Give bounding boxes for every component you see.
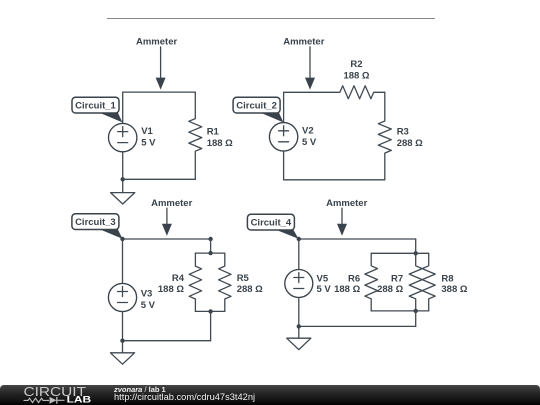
wire left rail top circuit 4 bbox=[298, 239, 300, 270]
wire bottom rail circuit 1 bbox=[123, 178, 196, 180]
junction node parallel bottom circuit 4 bbox=[414, 309, 418, 313]
junction node parallel top circuit 3 bbox=[208, 251, 212, 255]
wire left rail top circuit 1 bbox=[122, 92, 124, 123]
footer black bar bbox=[0, 385, 540, 405]
voltage source V5 bbox=[285, 270, 313, 298]
ground (circuit 1) bbox=[111, 179, 135, 204]
resistor R3 bbox=[378, 92, 391, 180]
wire parallel bottom bar circuit 4 bbox=[371, 310, 429, 312]
junction node parallel bottom circuit 3 bbox=[208, 309, 212, 313]
svg-text:R3: R3 bbox=[397, 127, 409, 138]
svg-text:V5: V5 bbox=[317, 273, 329, 284]
svg-text:5 V: 5 V bbox=[302, 137, 317, 148]
voltage source V2 bbox=[269, 123, 297, 151]
resistor R4 bbox=[189, 253, 201, 311]
svg-text:LAB: LAB bbox=[67, 395, 92, 405]
svg-text:388 Ω: 388 Ω bbox=[441, 284, 467, 295]
wire parallel bottom bar circuit 3 bbox=[195, 310, 224, 312]
voltage source V3 bbox=[108, 283, 136, 311]
ammeter probe arrow (circuit 4) bbox=[337, 208, 347, 236]
wire left rail top circuit 2 bbox=[283, 92, 285, 122]
junction node ground tee circuit 3 bbox=[120, 339, 124, 343]
callout label Circuit_2 bbox=[233, 97, 283, 122]
ammeter probe arrow (circuit 2) bbox=[305, 47, 315, 90]
svg-text:R4: R4 bbox=[172, 273, 185, 284]
callout label Circuit_3 bbox=[72, 214, 123, 239]
svg-text:R5: R5 bbox=[237, 273, 250, 284]
junction node callout corner circuit 4 bbox=[297, 237, 301, 241]
svg-text:Ammeter: Ammeter bbox=[136, 36, 177, 47]
resistor R5 bbox=[219, 253, 231, 311]
wire left rail bottom circuit 1 bbox=[122, 152, 124, 180]
wire top rail circuit 4 bbox=[299, 238, 416, 240]
junction node callout corner circuit 3 bbox=[120, 237, 124, 241]
top separator line bbox=[107, 18, 435, 20]
svg-text:V1: V1 bbox=[141, 126, 153, 137]
junction node top tee circuit 3 bbox=[208, 237, 212, 241]
wire parallel top bar circuit 3 bbox=[195, 252, 224, 254]
junction node parallel top circuit 4 bbox=[414, 251, 418, 255]
svg-text:Circuit_1: Circuit_1 bbox=[75, 101, 116, 112]
svg-text:V2: V2 bbox=[302, 125, 314, 136]
svg-text:R1: R1 bbox=[207, 127, 220, 138]
svg-text:188 Ω: 188 Ω bbox=[158, 284, 184, 295]
wire bottom rail circuit 2 bbox=[284, 179, 385, 181]
wire stub bottom parallel circuit 4 bbox=[415, 311, 417, 327]
footer texts bbox=[114, 386, 166, 394]
svg-text:Circuit_4: Circuit_4 bbox=[251, 218, 292, 229]
svg-text:V3: V3 bbox=[141, 288, 153, 299]
wire left rail bottom circuit 4 bbox=[298, 298, 300, 327]
svg-text:Circuit_3: Circuit_3 bbox=[75, 217, 116, 228]
CircuitLab logo resistor squiggle bbox=[24, 398, 50, 402]
ammeter probe arrow (circuit 3) bbox=[162, 208, 172, 236]
wire left rail bottom circuit 2 bbox=[283, 151, 285, 180]
resistor R7 bbox=[409, 253, 422, 311]
ammeter probe arrow (circuit 1) bbox=[156, 47, 166, 90]
svg-text:R6: R6 bbox=[348, 273, 360, 284]
svg-text:188 Ω: 188 Ω bbox=[334, 284, 360, 295]
wire parallel top bar circuit 4 bbox=[371, 252, 429, 254]
wire left rail bottom circuit 3 bbox=[122, 312, 124, 341]
svg-text:R7: R7 bbox=[391, 273, 403, 284]
ground (circuit 3) bbox=[110, 341, 134, 365]
resistor R1 bbox=[189, 92, 202, 179]
svg-text:Ammeter: Ammeter bbox=[151, 198, 192, 209]
svg-text:288 Ω: 288 Ω bbox=[377, 284, 403, 295]
junction node circuit 1 ground tee bbox=[121, 177, 125, 181]
wire bottom rail circuit 3 bbox=[123, 340, 211, 342]
callout label Circuit_4 bbox=[247, 214, 298, 239]
CircuitLab logo diode symbol bbox=[50, 397, 57, 404]
svg-text:Ammeter: Ammeter bbox=[283, 36, 324, 47]
wire left rail top circuit 3 bbox=[122, 239, 124, 283]
svg-text:5 V: 5 V bbox=[141, 300, 156, 311]
svg-text:R2: R2 bbox=[350, 59, 362, 70]
svg-text:R8: R8 bbox=[441, 273, 453, 284]
wire bottom rail circuit 4 bbox=[299, 325, 416, 327]
svg-text:288 Ω: 288 Ω bbox=[397, 138, 423, 149]
voltage source V1 bbox=[109, 123, 137, 151]
resistor R6 bbox=[365, 253, 378, 311]
svg-text:188 Ω: 188 Ω bbox=[343, 71, 369, 82]
svg-text:5 V: 5 V bbox=[317, 284, 332, 295]
svg-text:Circuit_2: Circuit_2 bbox=[236, 101, 277, 112]
ground (circuit 4) bbox=[287, 326, 311, 349]
resistor R8 bbox=[422, 253, 435, 311]
wire top rail circuit 3 bbox=[123, 238, 211, 240]
svg-text:288 Ω: 288 Ω bbox=[237, 284, 263, 295]
svg-text:188 Ω: 188 Ω bbox=[207, 138, 233, 149]
svg-text:Ammeter: Ammeter bbox=[326, 198, 367, 209]
wire stub top parallel circuit 3 bbox=[210, 239, 212, 253]
callout label Circuit_1 bbox=[72, 97, 122, 122]
svg-text:5 V: 5 V bbox=[141, 138, 156, 149]
junction node ground tee circuit 4 bbox=[297, 324, 301, 328]
wire stub bottom parallel circuit 3 bbox=[210, 311, 212, 340]
resistor R2 and top rail circuit 2 bbox=[284, 86, 385, 99]
wire top rail circuit 1 bbox=[123, 91, 196, 93]
wire stub top parallel circuit 4 bbox=[415, 239, 417, 253]
